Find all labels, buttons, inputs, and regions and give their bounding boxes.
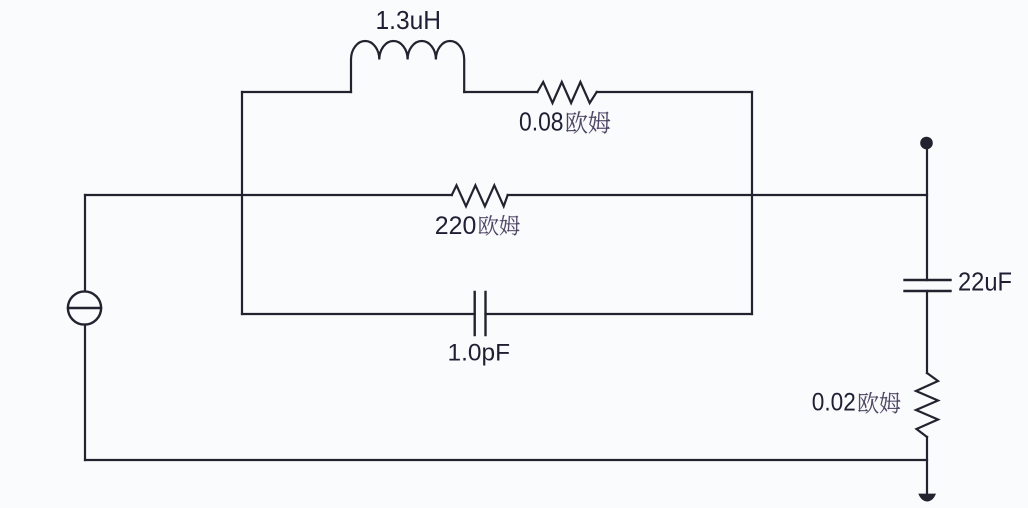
- svg-text:220: 220: [435, 212, 477, 240]
- svg-text:22uF: 22uF: [958, 266, 1012, 296]
- svg-text:1.0pF: 1.0pF: [448, 340, 511, 367]
- svg-text:1.3uH: 1.3uH: [376, 5, 442, 35]
- svg-text:0.08: 0.08: [519, 107, 564, 137]
- svg-text:0.02: 0.02: [812, 389, 856, 417]
